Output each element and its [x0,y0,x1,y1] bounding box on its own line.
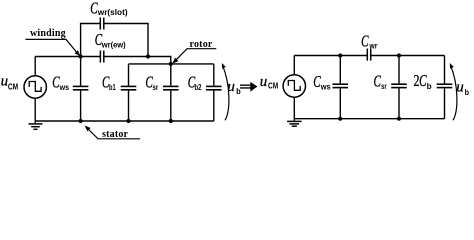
junction dot bottom C_sr right [397,117,401,121]
ground symbol (left) [29,124,43,129]
arrowhead of u_b arc (right) [450,63,454,69]
capacitor C_sr branch (right) [398,56,400,84]
capacitor 2C_b branch (right edge) [444,56,446,84]
svg-text:b1: b1 [109,83,116,92]
svg-text:u: u [227,79,235,95]
winding label with arrow [26,28,81,56]
svg-text:b: b [427,82,432,91]
label C_ws (left) [52,72,69,92]
label 2C_b (right) [414,71,432,91]
wire: slot loop (up, top rail, down) [81,24,101,57]
svg-text:C: C [361,31,369,50]
svg-text:winding: winding [30,28,66,39]
capacitor C_wr(slot) plates [100,18,104,30]
label u_CM (right) [260,74,279,91]
capacitor C_b1 branch [128,64,130,86]
capacitor C_wr plates (right) [367,49,370,61]
u_b measurement arc (right) [451,65,457,120]
svg-text:b2: b2 [195,83,202,92]
svg-text:wr: wr [369,42,378,51]
square wave glyph (left source) [29,82,41,92]
svg-text:CM: CM [8,82,19,91]
label C_b2 [188,72,202,92]
square wave glyph (right source) [288,81,300,91]
implies arrow ==> [240,82,258,92]
wire: left circuit top rail A left segment [35,56,100,58]
svg-text:sr: sr [153,83,159,92]
stator label with arrow [85,126,140,141]
svg-text:b: b [465,88,469,97]
capacitor C_sr branch (left) [170,64,172,86]
node A winding junction dot [79,54,83,58]
junction dot slot-loop right [146,54,150,58]
source u_CM circle (left) [24,76,46,98]
label u_b (left) [227,79,240,96]
capacitor C_wr(ew) plates [100,51,103,63]
wire: left circuit bottom rail [35,120,214,122]
svg-text:CM: CM [268,82,278,91]
capacitor C_ws branch (right) [339,56,341,84]
label C_sr (right) [374,71,387,91]
junction dot bottom C_b1 [126,119,130,123]
arrowhead of u_b arc (left) [222,63,226,69]
junction dot bottom C_ws right [338,117,342,121]
label C_wr (right) [361,31,377,50]
junction dot rotor node [169,62,173,66]
wire: source branch (left) [34,57,36,76]
label C_sr (left) [145,72,158,92]
junction dot bottom C_ws [79,119,83,123]
wire: rotor rail B [129,63,214,65]
capacitor C_ws branch (left) [80,57,82,86]
label u_CM (left) [1,73,19,91]
label u_b (right) [456,80,469,98]
ground symbol (right) [287,121,302,126]
label C_wr(ew) [95,30,126,50]
u_b measurement arc (left) [223,65,229,120]
svg-text:ws: ws [320,82,331,91]
label C_ws (right) [313,72,331,92]
svg-text:wr(ew): wr(ew) [101,41,126,50]
label C_wr(slot) [90,0,128,17]
svg-text:sr: sr [381,82,387,91]
svg-text:wr(slot): wr(slot) [97,8,128,17]
rotor label with arrow [172,39,216,64]
label C_b1 [102,72,116,92]
source branch (right) [293,56,295,75]
junction dot bottom C_sr [169,119,173,123]
capacitor C_b2 branch [213,64,215,86]
source u_CM circle (right) [283,75,305,97]
right circuit top rail [294,55,367,57]
svg-text:u: u [456,80,464,96]
junction dot top C_ws right [338,53,342,57]
wire: rail A right segment with step down to rotor rail [104,57,171,64]
svg-text:u: u [260,74,268,90]
svg-text:ws: ws [59,83,70,92]
junction dot top C_sr right [397,53,401,57]
right circuit bottom rail [294,118,444,120]
